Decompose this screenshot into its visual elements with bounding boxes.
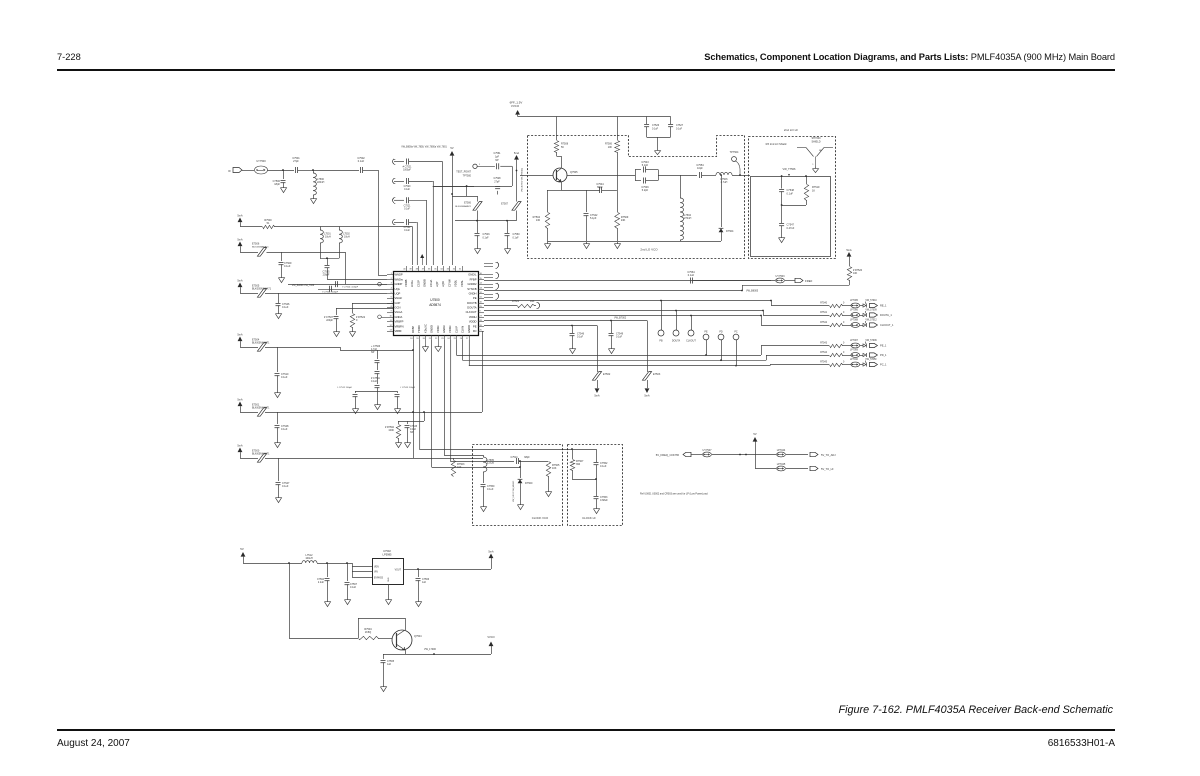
svg-text:CJYW: CJYW [447, 279, 451, 287]
svg-text:LP7010: LP7010 [850, 359, 859, 361]
svg-text:BLK005NAWA71: BLK005NAWA71 [455, 205, 472, 208]
svg-text:BLK005NAWA71: BLK005NAWA71 [252, 453, 270, 456]
svg-text:18: 18 [410, 338, 413, 340]
svg-text:R7542: R7542 [820, 322, 827, 324]
svg-text:1K: 1K [812, 189, 815, 192]
svg-text:CFHA: CFHA [429, 279, 433, 287]
svg-text:0.47uF: 0.47uF [787, 227, 795, 230]
svg-text:5V_FREQ_CONTR: 5V_FREQ_CONTR [656, 453, 679, 457]
svg-text:CLKOUT: CLKOUT [686, 340, 696, 343]
svg-text:VGGA: VGGA [395, 310, 403, 314]
svg-text:Q7504: Q7504 [414, 635, 422, 638]
svg-text:19: 19 [416, 338, 419, 340]
svg-text:0.1uF: 0.1uF [282, 306, 289, 309]
svg-text:PB: PB [659, 340, 663, 343]
svg-text:VRBFN: VRBFN [395, 324, 404, 328]
svg-text:0.1uF: 0.1uF [358, 160, 365, 163]
svg-text:UY7503: UY7503 [775, 275, 785, 278]
svg-text:VDDD: VDDD [469, 320, 477, 324]
svg-text:5mA: 5mA [237, 332, 243, 336]
svg-text:VRBF: VRBF [395, 329, 403, 333]
svg-text:10K: 10K [608, 146, 613, 149]
svg-text:0.1uF: 0.1uF [404, 208, 410, 210]
svg-text:GCP: GCP [395, 301, 401, 305]
svg-text:VGGF: VGGF [395, 296, 403, 300]
svg-text:D7504: D7504 [726, 230, 734, 233]
svg-text:5mA: 5mA [644, 393, 650, 397]
svg-text:R7521: R7521 [512, 300, 520, 303]
svg-text:D7500: D7500 [525, 482, 533, 485]
svg-text:VRBFP: VRBFP [395, 320, 404, 324]
svg-text:0: 0 [843, 362, 845, 364]
svg-text:UQu: UQu [395, 287, 401, 291]
svg-text:27pF: 27pF [293, 160, 299, 163]
svg-text:390: 390 [576, 463, 581, 466]
svg-text:VDDH: VDDH [469, 315, 477, 319]
svg-text:VW_57006: VW_57006 [865, 340, 877, 342]
svg-text:LP7005: LP7005 [850, 300, 859, 302]
svg-text:CLKP: CLKP [454, 326, 458, 333]
svg-text:R7541: R7541 [820, 312, 827, 314]
svg-text:YDDD: YDDD [417, 325, 421, 333]
svg-text:VVCO: VVCO [511, 104, 520, 108]
svg-text:18pF: 18pF [274, 183, 280, 186]
svg-text:0: 0 [843, 352, 845, 354]
svg-text:R7544: R7544 [820, 352, 827, 354]
svg-text:SHIELD: SHIELD [811, 140, 820, 143]
svg-text:0.1uF: 0.1uF [676, 127, 683, 130]
svg-text:GND: GND [388, 577, 390, 582]
svg-text:E7503: E7503 [653, 373, 661, 376]
svg-text:GNDD: GNDD [430, 325, 434, 333]
svg-text:LP7045: LP7045 [777, 463, 786, 466]
svg-text:5.1pF: 5.1pF [642, 164, 649, 167]
svg-text:TEST_POINT: TEST_POINT [456, 171, 471, 174]
svg-text:NP: NP [495, 159, 499, 162]
svg-text:GND62: GND62 [468, 282, 477, 286]
svg-text:5V_TO_ADJ: 5V_TO_ADJ [821, 453, 836, 457]
svg-text:WNDw: WNDw [395, 277, 403, 281]
svg-text:2nd LO LF: 2nd LO LF [784, 128, 798, 132]
svg-text:DOUTB: DOUTB [467, 301, 477, 305]
svg-text:22: 22 [435, 338, 438, 340]
svg-text:0.1uF: 0.1uF [281, 428, 288, 431]
svg-text:DOUTA: DOUTA [672, 340, 681, 343]
svg-text:68pF: 68pF [524, 456, 530, 459]
svg-text:AD9874: AD9874 [429, 303, 441, 307]
svg-text:U7502: U7502 [383, 549, 391, 553]
svg-text:CLKOUT_1: CLKOUT_1 [880, 323, 894, 327]
svg-text:LFDa: LFDa [410, 280, 414, 287]
svg-text:220nH: 220nH [317, 181, 325, 184]
svg-text:24: 24 [447, 338, 450, 340]
svg-text:DOUTA_1: DOUTA_1 [880, 313, 892, 317]
svg-text:DOUTA: DOUTA [467, 306, 476, 310]
svg-text:GNDC: GNDC [442, 325, 446, 333]
svg-text:100uH: 100uH [305, 557, 313, 560]
svg-text:0.1uF: 0.1uF [371, 380, 378, 383]
svg-text:0.1uF: 0.1uF [487, 488, 494, 491]
svg-text:5V: 5V [753, 432, 756, 436]
svg-text:5.2pF: 5.2pF [642, 189, 649, 192]
svg-text:56: 56 [561, 146, 564, 149]
svg-text:0: 0 [356, 319, 358, 322]
svg-text:CLKOUT: CLKOUT [466, 310, 477, 314]
svg-text:130: 130 [536, 219, 541, 222]
svg-text:0.1uF: 0.1uF [281, 376, 288, 379]
svg-text:1: 1 [479, 164, 481, 166]
svg-text:0.1uF: 0.1uF [483, 237, 490, 240]
svg-text:NP: NP [410, 431, 414, 434]
svg-text:5V: 5V [450, 146, 453, 150]
svg-text:5mA: 5mA [237, 397, 243, 401]
svg-text:E7506: E7506 [464, 202, 472, 205]
svg-text:5V: 5V [240, 547, 244, 551]
svg-text:0.68uF: 0.68uF [600, 499, 608, 502]
svg-text:C7521: C7521 [404, 205, 411, 207]
svg-text:VW_B800a VW_7801i VW_7800a VW_: VW_B800a VW_7801i VW_7800a VW_7801 [401, 147, 447, 149]
svg-text:1uF: 1uF [387, 663, 392, 666]
svg-text:FREF: FREF [805, 279, 813, 283]
svg-text:VW_B8005: VW_B8005 [746, 290, 759, 293]
svg-text:PD_1: PD_1 [880, 353, 887, 357]
svg-text:R7545: R7545 [820, 362, 827, 364]
svg-text:E7504: E7504 [252, 339, 260, 342]
svg-text:1uF: 1uF [422, 581, 427, 584]
svg-text:GND/L: GND/L [468, 273, 477, 277]
svg-text:BLK005NAWA71: BLK005NAWA71 [252, 342, 270, 345]
svg-text:51: 51 [267, 222, 270, 225]
svg-text:24K: 24K [621, 219, 626, 222]
svg-text:220pF: 220pF [326, 319, 333, 322]
svg-text:10uH: 10uH [344, 236, 350, 239]
svg-text:0.1uF: 0.1uF [616, 336, 623, 339]
svg-text:0.1uF: 0.1uF [787, 192, 794, 195]
svg-text:0: 0 [843, 343, 845, 345]
svg-text:VDDL: VDDL [454, 279, 458, 287]
svg-text:FFBP: FFBP [470, 277, 477, 281]
svg-text:PC: PC [734, 331, 738, 334]
svg-text:VW_5705F: VW_5705F [865, 359, 877, 361]
svg-text:LP7044: LP7044 [777, 449, 786, 452]
svg-text:BLK005NAWA71: BLK005NAWA71 [252, 288, 272, 291]
svg-text:10uH: 10uH [325, 236, 331, 239]
svg-text:VW_57012: VW_57012 [865, 320, 877, 322]
svg-text:CSJP: CSJP [416, 280, 420, 287]
svg-text:VW_B7002: VW_B7002 [614, 317, 627, 320]
svg-text:39: 39 [409, 269, 412, 271]
svg-text:10K: 10K [552, 467, 557, 470]
svg-text:PE: PE [473, 324, 477, 328]
svg-text:VIN: VIN [374, 572, 378, 574]
svg-text:E7507: E7507 [501, 203, 509, 206]
svg-text:RE_1: RE_1 [880, 304, 887, 308]
svg-text:WNDP: WNDP [395, 273, 403, 277]
svg-text:BLK005NAWA71: BLK005NAWA71 [252, 407, 270, 410]
svg-text:0.1uF: 0.1uF [282, 485, 289, 488]
svg-text:200pF: 200pF [323, 274, 330, 277]
svg-text:VOUT: VOUT [395, 570, 402, 572]
svg-text:VW_17006: VW_17006 [424, 648, 436, 651]
svg-text:E7562: E7562 [603, 373, 611, 376]
svg-text:5mA: 5mA [237, 443, 243, 447]
svg-text:5mA: 5mA [237, 278, 243, 282]
svg-text:0.1uF: 0.1uF [350, 586, 357, 589]
svg-text:0.1uF: 0.1uF [284, 265, 291, 268]
svg-text:PC_1: PC_1 [880, 363, 887, 367]
svg-text:0: 0 [843, 312, 845, 314]
svg-text:R7540: R7540 [820, 303, 827, 305]
svg-text:35: 35 [434, 269, 437, 271]
svg-text:LP7007: LP7007 [850, 340, 859, 342]
svg-text:10K: 10K [853, 272, 858, 275]
svg-text:0: 0 [843, 303, 845, 305]
svg-text:34: 34 [440, 269, 443, 271]
svg-text:C7520: C7520 [404, 186, 411, 188]
svg-text:100K: 100K [388, 429, 394, 432]
svg-text:VW_T7506: VW_T7506 [783, 167, 797, 171]
svg-text:# C7521: # C7521 [403, 167, 412, 169]
svg-text:2nd LO VCO: 2nd LO VCO [640, 248, 658, 252]
svg-text:40: 40 [403, 269, 406, 271]
svg-text:0: 0 [843, 322, 845, 324]
svg-text:GCN: GCN [395, 306, 401, 310]
svg-text:VEN: VEN [374, 567, 379, 569]
svg-text:270nH: 270nH [684, 217, 692, 220]
svg-text:0.1uF: 0.1uF [513, 237, 520, 240]
svg-text:CLOCK LF: CLOCK LF [582, 516, 596, 520]
svg-text:RFBP: RFBP [411, 326, 415, 333]
svg-text:UQP: UQP [395, 291, 401, 295]
svg-text:VVCO: VVCO [487, 635, 494, 639]
svg-text:0.1uF: 0.1uF [652, 127, 659, 130]
svg-text:LP7006: LP7006 [850, 310, 859, 312]
svg-text:UY7547: UY7547 [702, 449, 712, 452]
svg-text:R7543: R7543 [820, 343, 827, 345]
svg-text:BLK005NAWA71: BLK005NAWA71 [252, 246, 269, 249]
svg-text:VW_57009: VW_57009 [865, 310, 877, 312]
svg-text:RX 2nd LO Shield: RX 2nd LO Shield [766, 142, 787, 146]
svg-text:5.1pF: 5.1pF [590, 217, 597, 220]
svg-text:10K: 10K [457, 466, 462, 469]
svg-text:36: 36 [428, 269, 431, 271]
svg-text:# R7522: # R7522 [356, 316, 366, 319]
svg-text:TP7504: TP7504 [730, 151, 739, 154]
svg-text:uQP: uQP [435, 281, 439, 287]
svg-text:1000pF: 1000pF [403, 170, 411, 172]
svg-text:GNDH: GNDH [469, 291, 477, 295]
svg-text:27pF: 27pF [494, 181, 500, 184]
svg-text:10A: 10A [530, 300, 535, 303]
svg-text:E7500: E7500 [252, 450, 260, 453]
svg-text:PE_1: PE_1 [880, 344, 887, 348]
svg-text:U7500: U7500 [430, 298, 440, 302]
svg-text:C7514: C7514 [510, 456, 518, 459]
svg-text:10pF: 10pF [697, 167, 703, 170]
svg-text:LP5985: LP5985 [383, 553, 393, 557]
svg-text:5mA: 5mA [488, 549, 494, 553]
svg-text:31: 31 [459, 269, 462, 271]
svg-text:0.1uF: 0.1uF [577, 336, 584, 339]
svg-text:0.1uF: 0.1uF [404, 230, 410, 232]
svg-text:5mA: 5mA [237, 213, 243, 217]
svg-text:CLKN: CLKN [461, 326, 465, 333]
svg-text:PD: PD [719, 331, 723, 334]
svg-text:2.2uF: 2.2uF [318, 581, 325, 584]
svg-text:5V_TO_LF: 5V_TO_LF [821, 467, 834, 471]
svg-text:4.7uH: 4.7uH [487, 462, 494, 465]
svg-text:VDDC: VDDC [436, 325, 440, 333]
svg-text:PE: PE [473, 296, 477, 300]
svg-text:5mA: 5mA [846, 248, 852, 252]
svg-text:1: 1 [812, 164, 814, 166]
svg-text:5mA: 5mA [594, 393, 600, 397]
svg-text:1K8Q: 1K8Q [365, 631, 371, 634]
svg-text:23: 23 [441, 338, 444, 340]
svg-text:# C7504 | 100pF: # C7504 | 100pF [342, 287, 359, 289]
svg-text:NP: NP [819, 150, 823, 152]
svg-text:PE: PE [704, 331, 708, 334]
svg-text:E7501: E7501 [252, 404, 260, 407]
svg-text:uQN: uQN [441, 281, 445, 287]
svg-text:5mA: 5mA [237, 237, 243, 241]
svg-text:GNDP: GNDP [395, 282, 403, 286]
svg-text:# C7513 100pF: # C7513 100pF [400, 387, 416, 389]
svg-text:Q7505: Q7505 [570, 171, 578, 174]
svg-text:GNDA: GNDA [395, 315, 403, 319]
svg-text:BYPASS: BYPASS [374, 577, 383, 580]
svg-text:VW_B7001 VW_7800(1): VW_B7001 VW_7800(1) [522, 168, 524, 192]
svg-text:NP: NP [371, 351, 375, 354]
svg-text:FD: FD [473, 329, 477, 333]
svg-text:GNDD: GNDD [467, 325, 471, 333]
svg-text:27: 27 [466, 338, 469, 340]
svg-text:VW_57010: VW_57010 [865, 300, 877, 302]
svg-text:LP7009: LP7009 [850, 350, 859, 352]
svg-text:0.1uF: 0.1uF [404, 189, 410, 191]
svg-text:5mA: 5mA [514, 151, 520, 155]
svg-text:KDuXC: KDuXC [423, 324, 427, 333]
svg-text:SYNCB: SYNCB [467, 287, 476, 291]
svg-text:C7522: C7522 [404, 227, 411, 229]
svg-text:VW_18013 VW_MR665: VW_18013 VW_MR665 [513, 480, 515, 502]
svg-text:Ref U0001 U0002 and CR003 are: Ref U0001 U0002 and CR003 are used for L… [640, 493, 708, 496]
svg-text:68pF: 68pF [597, 186, 603, 189]
svg-text:LP7008: LP7008 [850, 320, 859, 322]
svg-text:VW_B8000 VW_7802: VW_B8000 VW_7802 [292, 285, 315, 287]
svg-text:# C7512 100pF: # C7512 100pF [337, 387, 353, 389]
svg-text:0.1uF: 0.1uF [688, 274, 695, 277]
svg-text:VDDC: VDDC [448, 325, 452, 333]
svg-text:VDSL: VDSL [460, 279, 464, 287]
svg-text:VDDB: VDDB [404, 279, 408, 287]
svg-text:CLOCK VCO: CLOCK VCO [532, 516, 549, 520]
svg-text:TP7500: TP7500 [463, 175, 472, 178]
svg-text:IF: IF [228, 169, 231, 173]
svg-text:0.1uF: 0.1uF [600, 465, 607, 468]
svg-text:GNDB: GNDB [423, 279, 427, 287]
svg-text:E7506: E7506 [252, 243, 260, 246]
svg-text:UY7500: UY7500 [256, 159, 266, 163]
